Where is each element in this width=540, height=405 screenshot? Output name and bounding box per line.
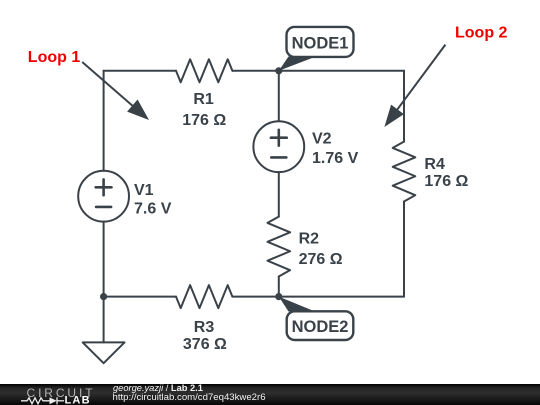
svg-text:176 Ω: 176 Ω xyxy=(182,112,226,129)
ground xyxy=(83,342,125,363)
annotation Loop 1 arrowhead xyxy=(127,100,149,121)
annotation Loop 2 arrow line xyxy=(394,45,445,114)
svg-text:276 Ω: 276 Ω xyxy=(299,251,343,268)
resistor R3 xyxy=(176,285,232,308)
svg-text:R3: R3 xyxy=(194,319,215,336)
wire top-left horizontal xyxy=(104,70,176,72)
node NODE1 callout box xyxy=(287,27,354,57)
resistor R1 xyxy=(176,59,232,82)
wire right vertical upper xyxy=(403,71,405,142)
svg-text:NODE2: NODE2 xyxy=(292,318,349,336)
svg-text:Loop 1: Loop 1 xyxy=(28,49,81,66)
wire middle between V2 and R2 xyxy=(278,172,280,217)
voltage source V1 xyxy=(78,171,129,222)
wire left vertical lower xyxy=(103,222,105,297)
svg-text:V2: V2 xyxy=(312,131,332,148)
node NODE2 callout box xyxy=(287,311,354,340)
svg-text:376 Ω: 376 Ω xyxy=(183,336,227,353)
node NODE1 callout wedge xyxy=(279,57,316,71)
svg-text:7.6 V: 7.6 V xyxy=(134,200,172,217)
wire middle vertical upper xyxy=(278,71,280,122)
wire ground stem xyxy=(103,297,105,343)
svg-text:R2: R2 xyxy=(299,231,320,248)
svg-text:V1: V1 xyxy=(134,182,154,199)
svg-text:Loop 2: Loop 2 xyxy=(455,24,508,41)
annotation Loop 2 arrowhead xyxy=(384,105,404,127)
svg-text:176 Ω: 176 Ω xyxy=(424,173,468,190)
wire top-right horizontal xyxy=(232,70,404,72)
footer bar xyxy=(0,384,540,405)
svg-text:R4: R4 xyxy=(424,156,445,173)
node junction dot NODE2 xyxy=(275,293,282,300)
voltage source V2 xyxy=(253,121,304,172)
resistor R2 xyxy=(268,217,291,277)
svg-text:1.76 V: 1.76 V xyxy=(312,150,359,167)
logo resistor-diode squiggle xyxy=(21,397,64,404)
wire middle below R2 xyxy=(278,276,280,296)
wire right vertical lower xyxy=(403,201,405,296)
wire left vertical upper xyxy=(103,71,105,171)
node junction dot NODE1 xyxy=(275,67,282,74)
resistor R4 xyxy=(393,142,416,202)
annotation Loop 1 arrow line xyxy=(82,62,136,109)
wire bottom-left horizontal xyxy=(104,296,176,298)
svg-text:LAB: LAB xyxy=(65,394,91,405)
svg-text:NODE1: NODE1 xyxy=(292,35,349,53)
wire bottom-right horizontal xyxy=(232,296,404,298)
node NODE2 callout wedge xyxy=(279,297,315,312)
logo diode triangle xyxy=(50,397,57,404)
node junction dot ground xyxy=(100,293,107,300)
svg-text:R1: R1 xyxy=(193,91,214,108)
svg-text:http://circuitlab.com/cd7eq43k: http://circuitlab.com/cd7eq43kwe2r6 xyxy=(113,392,266,403)
